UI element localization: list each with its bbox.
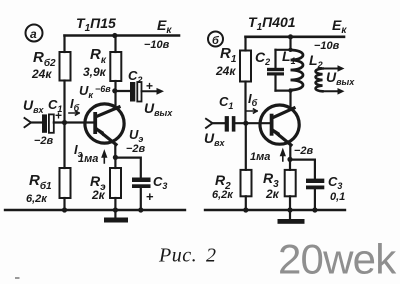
wire input to C1 (b) xyxy=(213,122,225,124)
wire emitter to C3 branch xyxy=(115,158,140,178)
stray mark bottom left xyxy=(15,277,20,279)
svg-text:20wek: 20wek xyxy=(278,236,397,283)
capacitor C1 (b) xyxy=(225,116,229,132)
svg-text:Iб: Iб xyxy=(248,91,258,108)
ground symbol (a) xyxy=(114,210,116,218)
capacitor C3 (a) xyxy=(132,178,151,183)
node base junction (b) xyxy=(243,121,248,126)
svg-text:−10в: −10в xyxy=(314,40,340,52)
tank bottom bar xyxy=(276,89,291,91)
svg-text:2к: 2к xyxy=(91,188,106,202)
transistor U1 (b) P401 xyxy=(260,105,299,145)
capacitor C3 (b) xyxy=(306,179,324,183)
svg-text:3,9к: 3,9к xyxy=(83,65,107,79)
output arrow top (b) xyxy=(323,68,342,70)
ground symbol (b) xyxy=(289,210,291,219)
svg-text:С2: С2 xyxy=(128,68,142,85)
svg-text:Rк: Rк xyxy=(90,46,107,66)
svg-text:1ма: 1ма xyxy=(78,153,98,165)
tank top bar xyxy=(276,49,291,51)
node emitter junction xyxy=(113,155,118,160)
arrow Ib (a) xyxy=(69,111,79,115)
svg-text:+: + xyxy=(146,189,154,204)
node rail-R3 xyxy=(287,207,292,212)
node rail-C3 xyxy=(138,207,143,212)
wire input to C1 xyxy=(31,121,42,123)
label circle (б) xyxy=(208,32,223,47)
wire collector to C2 xyxy=(116,90,131,92)
node rail-Rb1 xyxy=(62,207,67,212)
svg-text:−6в: −6в xyxy=(95,84,111,94)
wire emitter to C3 branch (b) xyxy=(290,160,315,179)
wire rail to Rb2 xyxy=(63,36,65,53)
wire collector up xyxy=(114,81,116,109)
power rail Ek (top rail, circuit a) xyxy=(65,34,180,37)
svg-text:Uвых: Uвых xyxy=(144,100,173,118)
inductor L1 xyxy=(291,50,304,90)
svg-text:С3: С3 xyxy=(328,174,342,191)
ground rail (b) xyxy=(205,209,345,211)
svg-text:6,2к: 6,2к xyxy=(212,189,234,201)
node tank bottom xyxy=(288,88,292,92)
svg-text:б: б xyxy=(212,35,220,47)
wire C1 to base xyxy=(54,121,94,123)
wire C3 to rail xyxy=(140,188,142,210)
svg-text:Ек: Ек xyxy=(332,17,347,36)
output arrow bottom (b) xyxy=(323,90,342,92)
inductor L2 xyxy=(316,69,323,92)
svg-text:а: а xyxy=(30,27,37,41)
output arrow Uvyx (a) xyxy=(142,90,161,92)
resistor Re xyxy=(114,157,116,168)
resistor Rb1 xyxy=(63,123,65,169)
svg-text:24к: 24к xyxy=(31,67,52,81)
wire Rk top to rail xyxy=(114,36,116,53)
wire R1 to base node xyxy=(244,82,246,124)
svg-text:2: 2 xyxy=(206,245,216,267)
arrow 1ma up (a) xyxy=(102,152,106,164)
resistor R2 xyxy=(245,123,247,170)
wire collector to tank xyxy=(289,91,291,110)
svg-text:Uвх: Uвх xyxy=(204,130,226,148)
svg-text:С3: С3 xyxy=(153,174,167,191)
ground rail (a) xyxy=(5,209,185,211)
svg-text:L2: L2 xyxy=(309,52,323,70)
node tank top xyxy=(288,48,292,52)
wire Rb2 to base node xyxy=(63,81,65,123)
wire C1 to base (b) xyxy=(235,122,269,124)
svg-text:24к: 24к xyxy=(215,64,236,78)
svg-text:С2: С2 xyxy=(255,49,270,67)
svg-text:Ек: Ек xyxy=(157,17,172,36)
node: rail junction at Rk xyxy=(112,33,117,38)
node rail-R2 xyxy=(243,207,248,212)
svg-text:Т1П15: Т1П15 xyxy=(76,15,116,34)
capacitor C2 (a) electrolytic xyxy=(130,82,135,102)
svg-text:+: + xyxy=(55,109,62,123)
resistor Rk xyxy=(110,52,121,81)
label circle (а) xyxy=(26,25,43,42)
input terminal arrow xyxy=(25,118,32,127)
svg-text:−2в: −2в xyxy=(34,135,54,147)
svg-text:1ма: 1ма xyxy=(250,151,270,163)
node base junction xyxy=(62,120,67,125)
resistor Rb2 xyxy=(60,52,71,81)
input terminal arrow (b) xyxy=(206,119,213,128)
svg-text:−2в: −2в xyxy=(126,143,146,155)
svg-text:2к: 2к xyxy=(265,187,280,201)
svg-text:Uэ: Uэ xyxy=(129,127,143,144)
resistor R1 xyxy=(240,51,251,82)
svg-text:−10в: −10в xyxy=(144,39,170,51)
wire emitter down (b) xyxy=(289,145,291,160)
capacitor C1 (a) electrolytic xyxy=(42,114,47,132)
node rail-tank junction xyxy=(288,34,293,39)
svg-text:Т1П401: Т1П401 xyxy=(248,14,296,33)
svg-text:Rб1: Rб1 xyxy=(29,172,52,192)
svg-text:Рис.: Рис. xyxy=(158,245,197,267)
svg-text:−2в: −2в xyxy=(294,145,314,157)
node rail-C3 (b) xyxy=(312,207,317,212)
svg-text:Uвых: Uвых xyxy=(326,69,355,87)
wire emitter down xyxy=(114,144,116,157)
svg-text:Uк: Uк xyxy=(79,83,93,100)
capacitor C2 (b) xyxy=(274,50,276,68)
svg-text:0,1: 0,1 xyxy=(330,191,345,203)
svg-text:С1: С1 xyxy=(219,94,233,111)
svg-text:Rб2: Rб2 xyxy=(33,49,56,69)
node emitter junction (b) xyxy=(287,157,292,162)
transistor U1 (a) P15 xyxy=(85,104,124,145)
node rail-Re xyxy=(113,207,118,212)
svg-text:6,2к: 6,2к xyxy=(26,193,48,205)
power rail Ek (top rail, circuit b) xyxy=(246,35,345,38)
node collector junction xyxy=(112,88,117,93)
wire rail to tank xyxy=(289,37,291,50)
wire rail to R1 xyxy=(244,37,246,51)
resistor R3 xyxy=(289,159,291,170)
arrow 1ma up (b) xyxy=(281,150,285,161)
svg-text:Iб: Iб xyxy=(70,96,80,113)
svg-text:R1: R1 xyxy=(220,45,237,65)
arrow Ib (b) xyxy=(247,109,257,113)
svg-text:Uвх: Uвх xyxy=(23,97,45,115)
wire C3 to rail (b) xyxy=(314,189,316,210)
